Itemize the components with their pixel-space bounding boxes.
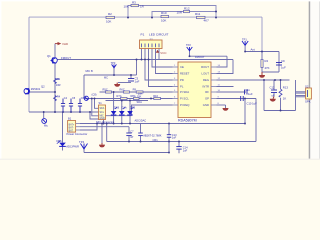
ground cb right xyxy=(270,97,276,102)
wire batt pin3 xyxy=(80,124,97,131)
wire q1 vcc stem xyxy=(54,44,56,57)
junction 136.5,59.5 xyxy=(136,59,138,61)
junction 169,141.5 xyxy=(168,141,170,143)
wire led tail xyxy=(62,147,64,151)
capacitor on pin5R xyxy=(245,90,248,95)
junction 102,123.5 xyxy=(101,123,103,125)
wire rc right leg xyxy=(278,52,280,73)
wire pin2R riser xyxy=(217,60,234,74)
wire cap e leg xyxy=(168,124,170,135)
svg-text:R8A: R8A xyxy=(131,94,136,98)
wire pin1R riser xyxy=(217,56,228,67)
window border top xyxy=(0,0,320,1)
wire p1 pin f xyxy=(158,49,160,60)
junction 262,51.5 xyxy=(261,51,263,53)
wire q1 to cluster xyxy=(54,63,56,112)
capacitor E bottom xyxy=(167,135,171,138)
wire x264 drop xyxy=(263,80,265,111)
wire cb leg xyxy=(273,80,275,90)
sheet background xyxy=(0,0,320,160)
resistor R2 on x55 xyxy=(54,78,57,83)
junction 128,17.5 xyxy=(127,17,129,19)
wire tp2 stem xyxy=(113,68,115,75)
wire pin5L row1 xyxy=(100,91,173,93)
svg-text:(C8): (C8) xyxy=(92,93,97,97)
junction 245,123.5 xyxy=(244,123,246,125)
wire mic pin4 xyxy=(90,112,99,119)
svg-text:LED CIRCUIT: LED CIRCUIT xyxy=(149,32,169,36)
svg-text:R5C: R5C xyxy=(103,88,108,92)
wire d1 bottom xyxy=(113,115,115,124)
wire ant1 stem xyxy=(244,45,246,51)
svg-text:ROUT: ROUT xyxy=(201,65,209,69)
svg-text:S1: S1 xyxy=(99,101,103,105)
svg-text:R4: R4 xyxy=(57,95,61,99)
wire q2 base xyxy=(29,91,55,93)
svg-text:P1: P1 xyxy=(141,32,145,36)
wire tp2 net xyxy=(84,74,137,76)
resistor R top1 xyxy=(106,12,115,23)
junction 103.5,123.5 xyxy=(103,123,105,125)
ground mid bottom xyxy=(99,143,105,147)
junction 130,123.5 xyxy=(129,123,131,125)
svg-text:R11: R11 xyxy=(195,12,201,16)
svg-text:Ant: Ant xyxy=(251,48,255,52)
svg-text:FMOUT: FMOUT xyxy=(61,56,71,60)
IC U1 RDA5807 xyxy=(173,62,221,123)
wire tp2 riser xyxy=(136,60,138,76)
wire spk pin2b xyxy=(296,96,306,98)
wire p1 pin a xyxy=(141,49,143,60)
junction 216,17.5 xyxy=(215,17,217,19)
svg-text:1uF: 1uF xyxy=(172,136,177,140)
svg-text:LOUT: LOUT xyxy=(202,72,210,76)
wire bottom net2 xyxy=(107,141,256,143)
wire cap f tail xyxy=(178,149,180,153)
svg-text:VCC: VCC xyxy=(160,51,167,55)
svg-text:SDA: SDA xyxy=(100,107,105,110)
svg-text:R6C: R6C xyxy=(120,88,125,92)
svg-text:D5A: D5A xyxy=(57,139,62,143)
capacitor F bottom xyxy=(176,147,181,150)
junction 121.8,100.5 xyxy=(121,100,123,102)
junction 264,80 xyxy=(263,79,265,81)
svg-text:R3: R3 xyxy=(132,0,136,4)
wire rb leg top xyxy=(280,80,282,89)
power vcc arrow connector xyxy=(156,50,168,55)
resistor R10 row2 xyxy=(137,94,161,100)
junction 148.5,59.5 xyxy=(148,59,150,61)
wire xtal leg xyxy=(140,124,142,133)
svg-text:R13: R13 xyxy=(283,86,289,90)
svg-text:10R: 10R xyxy=(177,10,183,14)
wire tp3 stem xyxy=(83,149,85,153)
capacitor D bottom xyxy=(126,133,131,136)
svg-text:R4: R4 xyxy=(265,59,269,63)
wire pin7L xyxy=(132,105,173,116)
wire c tp2 gnd xyxy=(118,82,131,84)
svg-text:47K: 47K xyxy=(265,66,270,70)
wire rb leg bottom xyxy=(280,98,282,111)
wire net110 xyxy=(264,110,296,112)
wire mic pin1 xyxy=(95,99,99,109)
wire bottom net3 xyxy=(84,152,169,154)
wire cap d leg lower xyxy=(128,136,130,142)
power vcc arrow top-left xyxy=(55,42,68,46)
svg-text:MIC Connector: MIC Connector xyxy=(96,120,114,124)
wire pin6L scl xyxy=(84,98,173,100)
window edge right xyxy=(309,0,311,160)
svg-text:CR1: CR1 xyxy=(153,138,159,142)
wire p1 pin e xyxy=(156,49,173,74)
svg-text:PI REQ: PI REQ xyxy=(180,103,190,107)
wire x107 leg xyxy=(106,124,108,142)
wire mid loop y11 xyxy=(152,12,216,18)
wire long net q1 xyxy=(57,59,233,61)
resistor matrix r2b xyxy=(131,94,140,100)
junction 179,141.5 xyxy=(178,141,180,143)
junction 113.6,123.5 xyxy=(113,123,115,125)
wire p1 pin c xyxy=(149,49,173,87)
wire cap d leg xyxy=(128,127,130,133)
wire cb gnd leg xyxy=(273,93,275,97)
svg-text:REG: REG xyxy=(203,78,209,82)
wire ant2 stem xyxy=(189,51,191,57)
ground rc block xyxy=(259,72,265,78)
svg-text:R2: R2 xyxy=(108,12,112,16)
wire upper loop y5 xyxy=(128,6,216,18)
svg-text:BAT-: BAT- xyxy=(69,127,74,130)
wire xtal leg lower xyxy=(140,136,142,142)
svg-text:SCL: SCL xyxy=(100,112,105,114)
svg-text:10K: 10K xyxy=(124,4,129,8)
svg-text:R10: R10 xyxy=(161,11,167,15)
capacitor C tp2 xyxy=(128,79,134,82)
junction 114,75 xyxy=(113,74,115,76)
svg-text:SDA: SDA xyxy=(137,100,143,104)
svg-text:R12: R12 xyxy=(184,6,190,10)
junction 151,98.5 xyxy=(150,98,152,100)
capacitor Cb right xyxy=(271,90,277,93)
wire top bus xyxy=(29,16,262,18)
wire xtal2 stub xyxy=(43,112,45,118)
wire spk pin1b xyxy=(296,92,306,94)
antenna TP ant2 xyxy=(187,47,193,51)
capacitor cluster left x80 xyxy=(78,99,82,113)
junction 130,100.5 xyxy=(129,100,131,102)
window border bottom xyxy=(0,159,320,160)
wire x245 drop xyxy=(244,99,246,124)
junction 121.8,123.5 xyxy=(121,123,123,125)
svg-text:MC: MC xyxy=(104,76,108,79)
svg-text:BAT: BAT xyxy=(69,130,74,133)
resistor R loop y11 xyxy=(177,6,190,14)
capacitor RC block xyxy=(276,63,282,66)
wire gnd mid stem xyxy=(101,124,103,144)
junction 169,123.5 xyxy=(168,123,170,125)
ground ic right xyxy=(223,108,229,111)
resistor R top2 xyxy=(161,11,169,22)
junction 106.7,123.5 xyxy=(106,123,108,125)
antenna ANT1 xyxy=(242,41,248,45)
connector speaker xyxy=(305,84,311,103)
wire spk drop xyxy=(295,80,297,111)
junction 216,11.5 xyxy=(215,11,217,13)
svg-text:R1: R1 xyxy=(56,77,60,81)
wire batt pin2 xyxy=(80,126,129,128)
svg-text:C11: C11 xyxy=(245,88,250,92)
junction 91.8,98.5 xyxy=(91,98,93,100)
junction 97,123.5 xyxy=(96,123,98,125)
resistor RC block vertical xyxy=(261,59,270,70)
junction 43.7,112 xyxy=(43,111,45,113)
resistor R3 on x55 xyxy=(54,96,57,101)
junction 71,112 xyxy=(70,111,72,113)
junction 169,152.5 xyxy=(168,152,170,154)
wire antenna net xyxy=(245,51,262,53)
svg-text:PD: PD xyxy=(180,78,184,82)
svg-text:D2B: D2B xyxy=(130,106,135,110)
crystal Y1 left xyxy=(42,119,47,124)
junction 275,80 xyxy=(274,79,276,81)
svg-text:RDA5807M: RDA5807M xyxy=(178,119,197,123)
svg-text:C12: C12 xyxy=(270,85,275,89)
junction 63,112 xyxy=(62,111,64,113)
svg-text:C9: C9 xyxy=(281,59,285,63)
junction 113.6,92 xyxy=(113,91,115,93)
junction 129,141.5 xyxy=(128,141,130,143)
junction 152,17.5 xyxy=(151,17,153,19)
wire mic pin3 stub xyxy=(92,99,99,116)
junction 245,98.5 xyxy=(244,98,246,100)
window edge far right xyxy=(318,0,320,160)
junction 90,112 xyxy=(89,111,91,113)
svg-text:D1A: D1A xyxy=(122,106,127,110)
wire pin3R long xyxy=(217,79,290,81)
wire cap e leg lower xyxy=(168,137,170,152)
window border left xyxy=(0,0,1,160)
junction 280.5,110.5 xyxy=(280,110,282,112)
wire led drop xyxy=(62,112,64,143)
wire left bottom bus xyxy=(29,111,99,113)
svg-text:RESET: RESET xyxy=(180,72,190,76)
svg-text:PL: PL xyxy=(180,85,184,89)
capacitor cluster left x71 xyxy=(69,99,73,113)
wire spk pin2a xyxy=(296,95,306,97)
resistor R9 row1 xyxy=(133,88,143,96)
wire bottom bus xyxy=(80,123,245,125)
diode LED D5 xyxy=(57,139,79,149)
window margin right xyxy=(310,0,320,160)
wire rc bottom xyxy=(262,71,279,73)
wire p1 pin b xyxy=(145,49,173,81)
svg-text:uF: uF xyxy=(272,94,275,98)
svg-text:10K: 10K xyxy=(106,19,111,23)
junction 55,112 xyxy=(54,111,56,113)
wire x256 drop xyxy=(255,99,257,142)
diode D3 led xyxy=(127,106,135,115)
junction 94.5,98.5 xyxy=(94,98,96,100)
svg-text:GND: GND xyxy=(100,118,105,120)
svg-text:1K: 1K xyxy=(283,96,287,100)
wire p1 pin d xyxy=(152,49,173,68)
junction 141.5,59.5 xyxy=(141,59,143,61)
svg-text:R9: R9 xyxy=(133,88,137,92)
junction 55,92 xyxy=(54,91,56,93)
connector battery J1 xyxy=(67,117,88,137)
svg-text:TP2: TP2 xyxy=(186,43,191,47)
svg-text:GP: GP xyxy=(205,97,209,101)
svg-text:C10 1uF: C10 1uF xyxy=(247,101,258,105)
svg-text:S2: S2 xyxy=(305,84,309,88)
wire rc block top xyxy=(262,51,279,53)
resistor matrix r1b xyxy=(120,88,130,94)
resistor matrix r2a xyxy=(117,94,128,100)
svg-text:VHD: VHD xyxy=(62,42,68,46)
wire mic pin3 net xyxy=(106,115,132,117)
junction 80,112 xyxy=(79,111,81,113)
svg-text:PI SCL: PI SCL xyxy=(180,97,189,101)
svg-text:CE: CE xyxy=(180,65,184,69)
capacitor cluster left x63 xyxy=(61,99,65,113)
svg-text:GND: GND xyxy=(203,103,209,107)
svg-text:Power Connector: Power Connector xyxy=(67,132,88,136)
wire d3 bottom xyxy=(129,115,131,124)
junction 140.5,141.5 xyxy=(140,141,142,143)
svg-text:INTR: INTR xyxy=(202,85,209,89)
svg-text:TP4: TP4 xyxy=(79,140,85,144)
testpoint TP bottom xyxy=(81,144,88,150)
wire c tp2 leg xyxy=(130,75,132,78)
wire d1 top xyxy=(113,92,115,111)
wire pin7R xyxy=(217,104,226,106)
wire pin4R xyxy=(217,86,234,88)
junction 189.5,56.2 xyxy=(189,55,191,57)
junction 145,59.5 xyxy=(144,59,146,61)
crystal bottom xyxy=(138,133,143,136)
junction 245.1,51.5 xyxy=(244,51,246,53)
svg-text:Q2: Q2 xyxy=(41,84,45,88)
resistor Rb right zigzag xyxy=(279,86,288,101)
svg-text:Q1: Q1 xyxy=(47,54,51,58)
svg-text:B1: B1 xyxy=(68,117,72,121)
transistor Q2 xyxy=(24,88,30,94)
capacitor on pin6R xyxy=(241,96,244,101)
junction 131,75 xyxy=(130,74,132,76)
wire right vertical top xyxy=(261,17,263,52)
wire d2 bottom xyxy=(121,115,123,124)
wire pin6R caps xyxy=(217,98,257,100)
svg-text:1uF: 1uF xyxy=(281,66,286,70)
diode D1 led xyxy=(111,106,120,115)
svg-text:SPK: SPK xyxy=(305,100,311,104)
svg-text:4K7: 4K7 xyxy=(204,18,210,22)
svg-text:D4B: D4B xyxy=(114,106,119,110)
wire d3 top xyxy=(129,101,131,112)
svg-text:R7A: R7A xyxy=(117,94,122,98)
svg-text:AB26T-32.768K: AB26T-32.768K xyxy=(143,133,162,137)
resistor R loop y5 xyxy=(124,0,145,8)
svg-text:1uF: 1uF xyxy=(183,149,188,153)
wire mic bottom stub xyxy=(103,120,105,124)
svg-text:TP1: TP1 xyxy=(242,37,247,41)
svg-text:RF: RF xyxy=(205,90,209,94)
svg-text:PI SDA: PI SDA xyxy=(180,90,189,94)
wire pin5R xyxy=(217,91,247,93)
wire x84 drop xyxy=(83,75,85,99)
wire gnd ic stem xyxy=(225,105,227,108)
svg-text:1P: 1P xyxy=(130,136,133,139)
svg-text:BAT+: BAT+ xyxy=(69,123,75,126)
wire sda row xyxy=(106,100,149,102)
resistor matrix r1a xyxy=(103,88,112,94)
diode D2 led xyxy=(119,106,127,115)
svg-text:MIC B: MIC B xyxy=(86,69,93,73)
wire left vertical xyxy=(28,17,30,112)
ground tp2 cap xyxy=(114,83,120,87)
svg-text:FMOUT: FMOUT xyxy=(195,55,205,59)
svg-text:TP3: TP3 xyxy=(111,61,116,65)
svg-text:10R: 10R xyxy=(56,83,61,87)
junction 280.5,80 xyxy=(280,79,282,81)
wire cap f leg xyxy=(178,142,180,147)
transistor Q1 xyxy=(51,58,58,64)
connector P1 LED CIRCUIT xyxy=(140,32,169,48)
svg-text:ADC/PWR: ADC/PWR xyxy=(66,145,79,149)
wire ant2 net xyxy=(190,55,228,57)
svg-text:2N5401: 2N5401 xyxy=(31,87,41,91)
diode D6 small xyxy=(84,96,88,100)
svg-text:ADC/DAC: ADC/DAC xyxy=(135,118,147,122)
wire spk pin1a xyxy=(296,91,306,93)
svg-text:1uF: 1uF xyxy=(248,92,253,96)
svg-text:R10: R10 xyxy=(153,94,158,98)
resistor R top3 xyxy=(195,12,209,22)
wire rc left leg xyxy=(261,52,263,73)
wire d2 top xyxy=(121,101,123,112)
svg-text:10K: 10K xyxy=(161,18,166,22)
connector MIC S1 xyxy=(96,101,114,124)
testpoint TP mid xyxy=(112,64,117,67)
svg-text:1uF: 1uF xyxy=(135,79,140,83)
